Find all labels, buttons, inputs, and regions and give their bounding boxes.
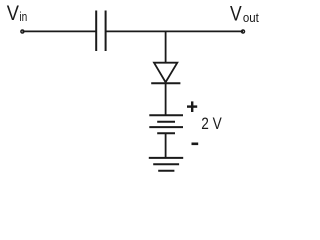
svg-text:out: out <box>243 11 259 25</box>
svg-text:2 V: 2 V <box>201 114 222 133</box>
svg-text:V: V <box>7 2 19 25</box>
svg-text:V: V <box>230 2 242 25</box>
svg-text:in: in <box>19 10 27 24</box>
